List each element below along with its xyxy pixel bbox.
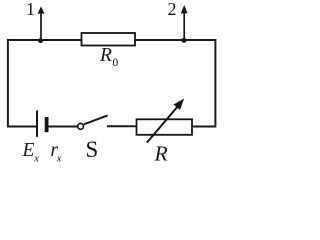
battery Ex short thick plate (negative) — [45, 117, 49, 132]
wire bottom-left to battery — [7, 126, 36, 128]
svg-text:0: 0 — [113, 57, 119, 69]
wire top-right segment — [135, 39, 217, 41]
svg-text:R: R — [99, 45, 112, 66]
terminal 1 arrow line — [40, 13, 42, 41]
node 1 junction dot — [38, 38, 43, 43]
wire battery to switch — [48, 126, 77, 128]
terminal 2 arrow line — [183, 13, 185, 41]
switch S blade — [84, 115, 108, 124]
svg-text:x: x — [33, 154, 39, 165]
battery Ex long plate (positive) — [36, 111, 38, 137]
resistor R0 box — [82, 33, 136, 46]
variable resistor arrowhead — [174, 100, 183, 110]
node 2 junction dot — [182, 38, 187, 43]
wire resistor R to right edge — [192, 126, 216, 128]
wire top-left segment — [7, 39, 82, 41]
resistor R box (variable) — [137, 119, 193, 135]
terminal 2 arrowhead — [181, 5, 188, 13]
wire left edge — [7, 39, 9, 127]
wire right edge — [214, 39, 216, 127]
svg-text:1: 1 — [26, 0, 35, 19]
svg-text:2: 2 — [168, 0, 177, 19]
switch S contact circle — [78, 124, 84, 130]
svg-text:E: E — [22, 140, 35, 161]
svg-text:R: R — [154, 142, 168, 165]
wire switch to resistor R — [107, 125, 137, 127]
terminal 1 arrowhead — [38, 6, 45, 13]
svg-text:x: x — [56, 154, 62, 165]
variable resistor arrow shaft — [147, 106, 179, 143]
svg-text:S: S — [86, 137, 99, 162]
